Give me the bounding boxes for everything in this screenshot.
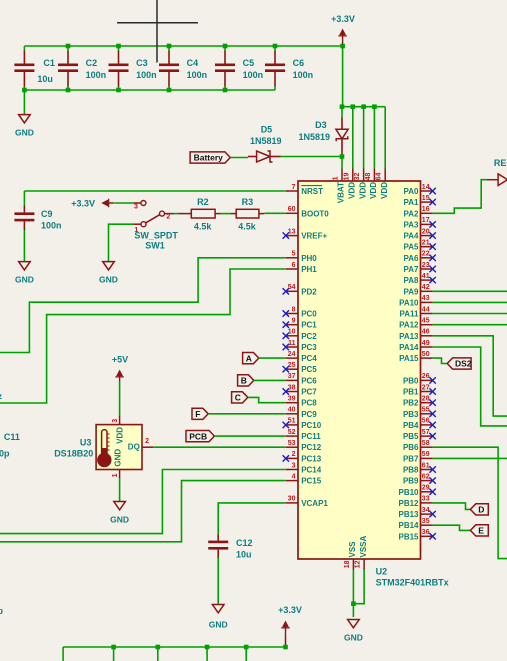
svg-text:100n: 100n [243, 70, 264, 80]
junction VSS node [351, 601, 356, 606]
svg-text:PA13: PA13 [399, 332, 419, 341]
svg-text:DS18B20: DS18B20 [54, 448, 93, 458]
svg-text:PCB: PCB [189, 431, 207, 441]
svg-text:PA14: PA14 [399, 343, 419, 352]
svg-text:PB12: PB12 [398, 499, 419, 508]
svg-text:100n: 100n [293, 70, 314, 80]
svg-text:PC4: PC4 [301, 354, 317, 363]
svg-text:2: 2 [292, 451, 296, 458]
svg-text:PC9: PC9 [301, 410, 317, 419]
svg-text:PB3: PB3 [403, 410, 419, 419]
svg-text:SW_SPDT: SW_SPDT [134, 230, 178, 240]
ground below C1 rail [15, 115, 34, 138]
svg-text:PB9: PB9 [403, 477, 419, 486]
svg-text:U3: U3 [80, 437, 92, 447]
svg-text:1N5819: 1N5819 [299, 132, 331, 142]
svg-text:49: 49 [422, 340, 430, 347]
svg-text:45: 45 [422, 318, 430, 325]
wire PA9 to edge [433, 290, 507, 292]
svg-text:C1: C1 [43, 58, 55, 68]
svg-text:GND: GND [99, 275, 118, 285]
junctions on VDD rail [340, 104, 377, 109]
svg-text:56: 56 [422, 418, 430, 425]
svg-text:RED: RED [494, 158, 507, 168]
svg-text:DQ: DQ [128, 442, 140, 451]
wire SW1 pin1 to ground [109, 224, 134, 261]
capacitor C5 [215, 46, 263, 90]
U3 pin 2 DQ stub [142, 438, 153, 447]
svg-text:5: 5 [292, 251, 296, 258]
capacitor C9 [14, 191, 61, 262]
svg-text:NRST: NRST [301, 187, 323, 196]
wire R2 to R3 [221, 213, 232, 215]
svg-text:C11: C11 [4, 432, 20, 442]
svg-text:4.5k: 4.5k [238, 222, 257, 232]
svg-text:z: z [0, 392, 2, 401]
wire VCAP1 to C12 [218, 503, 286, 535]
svg-text:PC8: PC8 [301, 399, 317, 408]
svg-text:PH1: PH1 [301, 265, 317, 274]
svg-text:10u: 10u [37, 74, 53, 84]
svg-text:3: 3 [112, 419, 119, 423]
global label E [470, 525, 488, 536]
U2 left pin stubs [286, 191, 298, 503]
svg-text:C2: C2 [86, 58, 98, 68]
power +3.3V left arrow [71, 198, 114, 208]
wire PA2 to LED [433, 180, 487, 214]
global label PCB [186, 431, 214, 442]
svg-text:PB13: PB13 [398, 510, 419, 519]
svg-text:100n: 100n [41, 220, 62, 230]
svg-text:10u: 10u [236, 550, 252, 560]
wire SW1 pin2 to R2 [174, 213, 179, 215]
svg-text:SW1: SW1 [145, 240, 165, 250]
capacitor C2 [58, 46, 106, 90]
global label B [238, 375, 254, 386]
svg-text:VCAP1: VCAP1 [301, 499, 328, 508]
svg-text:PA3: PA3 [404, 220, 420, 229]
svg-text:PC1: PC1 [301, 321, 317, 330]
svg-text:GND: GND [15, 275, 34, 285]
svg-text:10: 10 [288, 329, 296, 336]
svg-text:PC11: PC11 [301, 432, 321, 441]
svg-text:36: 36 [422, 529, 430, 536]
power +3.3V bottom [278, 605, 302, 649]
junction below D3 / VBAT node [340, 154, 345, 159]
svg-text:F: F [195, 409, 200, 419]
svg-text:19: 19 [343, 173, 350, 181]
svg-text:C4: C4 [187, 58, 199, 68]
wire PA15 to DS2 [433, 358, 448, 363]
svg-text:PA4: PA4 [404, 232, 420, 241]
svg-text:PC12: PC12 [301, 443, 322, 452]
wire +3.3V down to VDD rail [342, 46, 344, 107]
svg-text:8: 8 [292, 306, 296, 313]
svg-text:U2: U2 [376, 567, 388, 577]
svg-text:PC14: PC14 [301, 466, 322, 475]
wire DQ to PC12 [153, 446, 285, 448]
svg-text:3: 3 [292, 462, 296, 469]
svg-text:GND: GND [344, 632, 363, 642]
wire PB7 to edge [433, 457, 507, 459]
svg-text:C3: C3 [136, 58, 148, 68]
svg-text:21: 21 [422, 240, 430, 247]
svg-text:62: 62 [422, 473, 430, 480]
global label D [470, 504, 488, 515]
svg-text:PA7: PA7 [404, 265, 420, 274]
svg-text:VREF+: VREF+ [301, 232, 327, 241]
wire PB12 to D [433, 503, 471, 510]
svg-text:PB14: PB14 [398, 521, 419, 530]
svg-text:52: 52 [288, 429, 296, 436]
svg-text:57: 57 [422, 429, 430, 436]
svg-text:48: 48 [365, 173, 372, 181]
wire PH1 net [0, 269, 286, 403]
svg-text:GND: GND [114, 449, 123, 467]
svg-text:PA5: PA5 [404, 243, 420, 252]
U2 left no-connect marks [283, 232, 289, 461]
diode D5 1N5819 [248, 124, 282, 162]
wire PA14 to edge [433, 347, 507, 426]
svg-text:A: A [246, 353, 252, 363]
wire VDD drops to U2 top pins [353, 107, 385, 169]
svg-text:64: 64 [376, 173, 383, 181]
svg-text:PA8: PA8 [404, 276, 420, 285]
wire PC14 net [0, 470, 286, 534]
svg-text:15: 15 [422, 195, 430, 202]
svg-text:PB6: PB6 [403, 443, 419, 452]
svg-text:GND: GND [209, 620, 228, 630]
svg-text:26: 26 [422, 373, 430, 380]
svg-text:C6: C6 [293, 58, 305, 68]
cursor crosshair [117, 0, 198, 63]
svg-text:PA0: PA0 [404, 187, 420, 196]
svg-text:GND: GND [15, 128, 34, 138]
svg-text:p: p [0, 606, 4, 616]
ground below U2 [344, 620, 363, 643]
svg-text:42: 42 [422, 284, 430, 291]
svg-text:PB4: PB4 [403, 421, 419, 430]
U2 right pin stubs [421, 191, 433, 536]
svg-text:PH0: PH0 [301, 254, 317, 263]
svg-text:C9: C9 [41, 209, 53, 219]
wire PA11 to edge [433, 313, 507, 315]
svg-text:PA1: PA1 [404, 198, 420, 207]
svg-text:44: 44 [422, 306, 430, 313]
svg-text:B: B [241, 376, 247, 386]
svg-text:D5: D5 [261, 124, 273, 134]
svg-text:34: 34 [422, 507, 430, 514]
U2 right pin numbers [422, 184, 430, 536]
wire bottom rail drops [63, 647, 246, 661]
svg-text:22: 22 [422, 251, 430, 258]
capacitor C6 [265, 46, 313, 90]
svg-text:PC15: PC15 [301, 477, 322, 486]
wire D5 cathode to VBAT node [281, 156, 342, 158]
U3 pin 1 GND stub [112, 470, 120, 479]
svg-text:53: 53 [288, 440, 296, 447]
svg-text:PC3: PC3 [301, 343, 317, 352]
U2 bottom pin numbers [344, 560, 362, 568]
svg-text:23: 23 [422, 262, 430, 269]
svg-text:16: 16 [422, 206, 430, 213]
ground below SW1 [99, 262, 118, 285]
svg-text:28: 28 [422, 396, 430, 403]
U3 pin 3 VDD stub [112, 415, 120, 424]
wire top rail of decoupling bank [24, 45, 342, 47]
wire VDD distribution rail [342, 106, 385, 108]
svg-text:20: 20 [422, 228, 430, 235]
wire PB14 to E [433, 525, 471, 530]
ground below C12 [209, 605, 228, 630]
resistor R3 [231, 197, 264, 232]
wire U3 VDD to +5V [119, 381, 121, 415]
global label DS2 [447, 358, 472, 369]
svg-text:43: 43 [422, 295, 430, 302]
svg-text:1: 1 [112, 473, 119, 477]
U2 reference and value [376, 567, 449, 588]
svg-text:33: 33 [422, 496, 430, 503]
svg-text:38: 38 [288, 384, 296, 391]
svg-text:PB7: PB7 [403, 454, 419, 463]
wire NRST to C9 [24, 190, 285, 192]
svg-text:VDD: VDD [115, 427, 124, 444]
wire PCB to PC11 [214, 435, 285, 437]
U2 left pin names [301, 187, 329, 508]
ground below U3 [110, 502, 129, 525]
wire PC15 net [0, 481, 286, 542]
U2 right pin names [398, 187, 419, 541]
svg-text:PC2: PC2 [301, 332, 317, 341]
svg-text:6: 6 [292, 262, 296, 269]
svg-text:E: E [478, 526, 484, 536]
svg-text:55: 55 [422, 407, 430, 414]
svg-text:18: 18 [344, 560, 351, 568]
svg-text:GND: GND [110, 515, 129, 525]
svg-text:4: 4 [292, 473, 296, 480]
svg-text:STM32F401RBTx: STM32F401RBTx [376, 577, 449, 587]
svg-text:D3: D3 [315, 120, 327, 130]
global label A [243, 353, 259, 364]
svg-text:40: 40 [288, 407, 296, 414]
svg-text:100n: 100n [86, 70, 107, 80]
U3 pin names and labels [54, 427, 140, 467]
svg-text:2: 2 [145, 438, 149, 445]
wire B to PC6 [254, 379, 286, 381]
wire VBAT node to pin 1 [341, 157, 343, 169]
U2 top pin numbers [333, 173, 383, 181]
U2 STM32F401RBTx body [298, 181, 421, 559]
power +5V [112, 354, 128, 381]
U2 NRST overline [301, 185, 322, 187]
svg-text:11: 11 [288, 340, 296, 347]
U2 bottom pin names [348, 535, 368, 557]
wire PB6 net [433, 447, 507, 558]
wire C1 rail to ground [23, 90, 25, 115]
global label F [192, 408, 208, 419]
svg-text:VSSA: VSSA [359, 535, 368, 557]
svg-text:100p: 100p [0, 448, 10, 458]
svg-text:VDD: VDD [369, 182, 378, 199]
resistor R2 [179, 197, 221, 232]
svg-text:PB15: PB15 [398, 532, 419, 541]
svg-text:PB1: PB1 [403, 388, 419, 397]
svg-text:+3.3V: +3.3V [278, 605, 302, 615]
wire PA12 to edge [433, 324, 507, 326]
svg-text:PB0: PB0 [403, 376, 419, 385]
global label Battery [190, 152, 230, 163]
svg-text:+3.3V: +3.3V [71, 198, 95, 208]
svg-text:9: 9 [292, 318, 296, 325]
svg-text:PB2: PB2 [403, 399, 419, 408]
junctions on bottom rail [22, 88, 227, 93]
U2 right no-connect marks [429, 188, 435, 540]
svg-text:VSS: VSS [348, 541, 357, 558]
wire VSS VSSA to ground [352, 570, 354, 617]
svg-text:41: 41 [422, 273, 430, 280]
svg-text:12: 12 [355, 560, 362, 568]
capacitor C4 [159, 46, 207, 90]
svg-text:39: 39 [288, 396, 296, 403]
svg-text:PB8: PB8 [403, 466, 419, 475]
svg-text:VDD: VDD [348, 182, 357, 199]
temperature sensor U3 DS18B20 body [96, 425, 142, 470]
LED D RED at edge [487, 158, 507, 185]
svg-text:59: 59 [422, 451, 430, 458]
svg-text:PD2: PD2 [301, 287, 317, 296]
svg-text:PC13: PC13 [301, 454, 322, 463]
svg-text:13: 13 [288, 228, 296, 235]
svg-text:C: C [235, 393, 241, 403]
svg-text:7: 7 [292, 184, 296, 191]
capacitor C3 [109, 46, 157, 90]
svg-text:VDD: VDD [380, 182, 389, 199]
svg-text:17: 17 [422, 217, 430, 224]
svg-text:60: 60 [288, 206, 296, 213]
partial capacitor C11 labels at left edge [0, 432, 20, 458]
svg-text:VDD: VDD [358, 182, 367, 199]
wire R3 to BOOT0 [264, 212, 286, 214]
U2 left pin numbers [288, 184, 296, 503]
wire PA10 to edge [433, 301, 507, 303]
wire C to PC8 [248, 397, 286, 402]
svg-text:58: 58 [422, 440, 430, 447]
svg-text:3: 3 [134, 204, 138, 211]
junctions on top rail [66, 44, 278, 49]
wire F to PC9 [208, 413, 286, 415]
svg-text:D: D [478, 505, 484, 515]
svg-text:46: 46 [422, 329, 430, 336]
svg-text:PC0: PC0 [301, 310, 317, 319]
wire A to PC4 [259, 357, 286, 359]
svg-text:51: 51 [288, 418, 296, 425]
svg-text:PC6: PC6 [301, 376, 317, 385]
svg-text:35: 35 [422, 518, 430, 525]
switch SW1 SW_SPDT [134, 201, 179, 251]
svg-text:14: 14 [422, 184, 430, 191]
svg-text:PC7: PC7 [301, 388, 317, 397]
svg-text:+5V: +5V [112, 354, 128, 364]
svg-text:PC5: PC5 [301, 365, 317, 374]
svg-text:25: 25 [288, 362, 296, 369]
svg-text:1: 1 [333, 176, 340, 180]
svg-text:DS2: DS2 [455, 359, 472, 369]
svg-text:PA15: PA15 [399, 354, 419, 363]
U2 top pin stubs [342, 169, 385, 182]
svg-text:+3.3V: +3.3V [331, 14, 355, 24]
svg-text:PB5: PB5 [403, 432, 419, 441]
wire Battery to D5 [231, 157, 248, 159]
svg-text:VBAT: VBAT [337, 182, 346, 203]
U2 top pin names [337, 182, 389, 203]
wire +3.3V to SW1 pin 3 [114, 202, 133, 204]
junctions bottom rail [111, 645, 248, 650]
svg-text:PA2: PA2 [404, 209, 420, 218]
svg-text:BOOT0: BOOT0 [301, 209, 329, 218]
svg-text:PC10: PC10 [301, 421, 322, 430]
svg-text:50: 50 [422, 351, 430, 358]
svg-text:R3: R3 [242, 197, 254, 207]
svg-text:C5: C5 [243, 58, 255, 68]
svg-text:PA11: PA11 [400, 310, 420, 319]
wire bottom rail of decoupling bank [24, 89, 275, 91]
svg-text:30: 30 [288, 496, 296, 503]
svg-text:61: 61 [422, 462, 430, 469]
svg-text:PA10: PA10 [399, 298, 419, 307]
capacitor C12 [208, 535, 252, 605]
svg-text:PA6: PA6 [404, 254, 420, 263]
svg-text:29: 29 [422, 485, 430, 492]
svg-text:R2: R2 [197, 197, 209, 207]
svg-text:C12: C12 [236, 538, 253, 548]
svg-text:54: 54 [288, 284, 296, 291]
junction at +3.3V feed [340, 44, 345, 49]
global label C [232, 392, 248, 403]
svg-text:2: 2 [166, 214, 170, 221]
U3 thermometer icon [97, 430, 111, 468]
svg-text:1N5819: 1N5819 [250, 136, 282, 146]
wire PA13 to edge [433, 336, 507, 416]
capacitor C1 [14, 46, 55, 90]
svg-text:24: 24 [288, 351, 296, 358]
svg-text:100n: 100n [136, 70, 157, 80]
svg-text:PA12: PA12 [399, 321, 419, 330]
svg-text:4.5k: 4.5k [194, 222, 213, 232]
svg-text:Battery: Battery [194, 153, 224, 163]
svg-text:32: 32 [354, 173, 361, 181]
wire bottom 3V3 rail [63, 646, 285, 648]
wire U3 GND down [119, 478, 121, 502]
wire PH0 net [0, 258, 286, 353]
U2 bottom pin stubs [353, 559, 364, 570]
svg-text:27: 27 [422, 384, 430, 391]
svg-text:PB10: PB10 [398, 488, 419, 497]
svg-text:37: 37 [288, 373, 296, 380]
diode D3 1N5819 [299, 107, 349, 157]
ground below C9 [15, 262, 34, 285]
svg-text:PA9: PA9 [404, 287, 420, 296]
svg-text:100n: 100n [187, 70, 208, 80]
power +3.3V top [331, 14, 355, 44]
